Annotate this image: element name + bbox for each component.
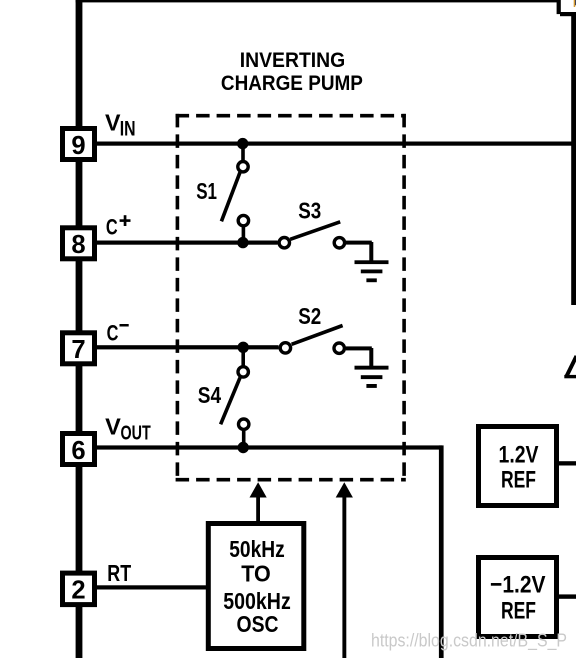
pin 9 box <box>63 129 95 160</box>
switch S4: stub from C- dot <box>241 347 245 367</box>
cropped logo mark (orange) <box>574 0 576 7</box>
dashed charge pump boundary (right edge) <box>402 114 406 482</box>
dashed charge pump boundary (left edge) <box>176 114 180 482</box>
error amp triangle corner (cropped) <box>566 356 576 377</box>
ground (S2) bar 3 <box>366 384 376 388</box>
svg-text:REF: REF <box>501 467 536 494</box>
switch S4: bottom contact circle <box>239 419 249 429</box>
ground (S2) bar 1 <box>355 366 389 370</box>
wire: VOUT net <box>96 445 442 449</box>
svg-text:IN: IN <box>120 118 136 141</box>
svg-text:2: 2 <box>71 577 85 605</box>
svg-text:6: 6 <box>71 437 85 465</box>
-1.2V reference block <box>479 558 557 637</box>
oscillator block U-OSC <box>208 524 303 649</box>
wire: S2 to ground <box>346 346 372 350</box>
switch S1: blade <box>221 172 240 221</box>
wire: RT net <box>97 585 206 589</box>
wire: IC top boundary <box>76 0 560 2</box>
switch S1: top contact circle <box>238 162 248 172</box>
ground (S3) bar 2 <box>361 270 383 274</box>
wire: S2 ground drop <box>369 348 373 368</box>
svg-text:C: C <box>107 320 119 345</box>
pin 6 box <box>63 434 95 465</box>
arrow into charge pump from OSC (head) <box>250 482 267 497</box>
svg-text:https://blog.csdn.net/B_S_P: https://blog.csdn.net/B_S_P <box>371 630 567 651</box>
svg-text:RT: RT <box>107 560 131 586</box>
switch S4: blade <box>221 378 240 425</box>
svg-text:REF: REF <box>501 597 536 624</box>
node: VIN junction dot <box>237 138 248 149</box>
pin 2 box <box>63 573 95 605</box>
wire: top boundary right segment <box>560 12 576 16</box>
svg-text:C: C <box>106 215 118 240</box>
wire: -1.2V REF output stub <box>558 594 576 598</box>
svg-text:INVERTING: INVERTING <box>240 49 346 72</box>
switch S2: right contact circle <box>334 343 344 353</box>
ground (S3) bar 1 <box>355 260 389 264</box>
svg-text:TO: TO <box>241 561 271 587</box>
switch S3: right contact circle <box>334 238 344 248</box>
wire: top boundary step down <box>557 0 561 14</box>
arrow into charge pump from OSC (stem) <box>256 495 260 524</box>
switch S2: left contact circle <box>280 343 290 353</box>
wire: S3 to ground <box>346 241 372 245</box>
arrow into charge pump from below (head) <box>336 482 353 497</box>
switch S1: stub from VIN dot <box>241 143 245 160</box>
dashed charge pump boundary (top edge) <box>176 114 406 118</box>
wire: S3 ground drop <box>369 242 373 262</box>
1.2V reference block <box>479 427 557 506</box>
arrow into charge pump from below (stem) <box>342 495 346 658</box>
svg-text:50kHz: 50kHz <box>229 536 285 562</box>
svg-text:V: V <box>105 109 121 135</box>
wire: 1.2V REF output stub <box>558 461 576 465</box>
svg-text:−1.2V: −1.2V <box>490 571 546 598</box>
pin 8 box <box>63 228 95 259</box>
switch S1: bottom contact circle <box>238 215 248 225</box>
wire: VIN net <box>97 142 576 146</box>
svg-text:S2: S2 <box>298 303 321 329</box>
svg-text:CHARGE PUMP: CHARGE PUMP <box>221 70 363 95</box>
node: C- junction dot <box>238 342 249 353</box>
switch S4: stub to VOUT dot <box>242 429 246 444</box>
svg-text:V: V <box>105 414 121 440</box>
ground (S3) bar 3 <box>366 278 376 282</box>
switch S3: left contact circle <box>279 238 289 248</box>
svg-text:8: 8 <box>71 231 85 259</box>
pin 7 box <box>63 333 95 364</box>
node: C+ junction dot <box>237 237 248 248</box>
svg-text:S3: S3 <box>298 197 321 223</box>
svg-text:S4: S4 <box>198 382 221 408</box>
wire: VOUT vertical drop <box>439 445 444 658</box>
wire: C- net <box>97 345 279 349</box>
node: VOUT junction dot <box>238 442 249 453</box>
switch S4: top contact circle <box>238 367 248 377</box>
svg-text:9: 9 <box>71 132 85 160</box>
svg-text:7: 7 <box>71 336 85 364</box>
svg-text:S1: S1 <box>196 178 217 204</box>
wire: right vertical bus from VIN <box>571 14 576 305</box>
switch S2: blade <box>292 326 343 345</box>
cropped logo mark (navy) <box>574 0 576 5</box>
svg-text:OUT: OUT <box>121 422 151 445</box>
dashed charge pump boundary (bottom edge) <box>176 478 406 482</box>
svg-text:OSC: OSC <box>237 611 279 637</box>
switch S3: blade <box>290 222 340 240</box>
switch S1: stub to C+ dot <box>242 226 246 242</box>
svg-text:1.2V: 1.2V <box>499 441 540 468</box>
wire: IC left boundary bus <box>76 0 83 658</box>
ground (S2) bar 2 <box>361 375 383 379</box>
wire: C+ net <box>97 241 278 245</box>
